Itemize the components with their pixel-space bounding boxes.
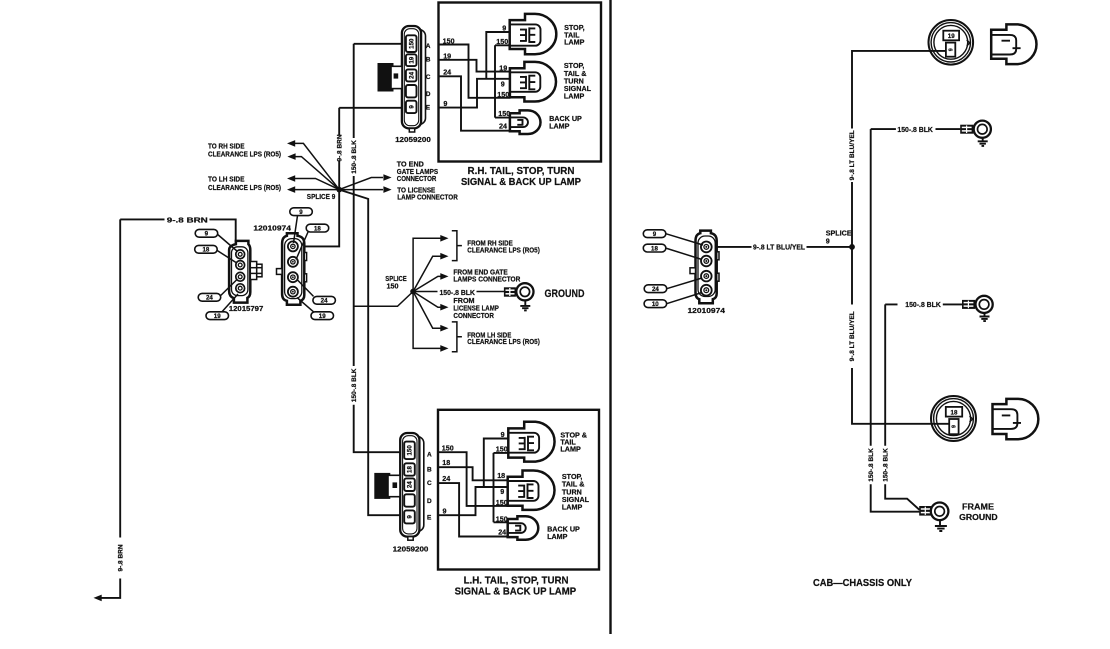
connector 12059200 (top) body xyxy=(402,26,421,128)
arrowhead to license xyxy=(383,186,391,193)
svg-text:24: 24 xyxy=(206,295,213,302)
back-up lamp filament xyxy=(517,119,522,126)
callout oval 9 (12015797) xyxy=(195,229,237,251)
svg-text:19: 19 xyxy=(319,313,326,320)
svg-text:CONNECTOR: CONNECTOR xyxy=(397,174,437,183)
connector 12059200 (bottom) pin cavity E "9" xyxy=(404,510,415,523)
svg-text:C: C xyxy=(426,74,431,81)
wire splice 150 to LH clearance bracket arrow 2 xyxy=(413,292,441,349)
bracket FROM LH SIDE xyxy=(452,322,462,352)
stop/tail lamp inner socket xyxy=(510,24,540,45)
wire 150-.8 BLK from pin A to splice 150 (exits connector left) xyxy=(354,43,402,45)
stop/tail/turn (L.H.) inner socket xyxy=(508,481,538,501)
svg-text:9: 9 xyxy=(500,487,504,496)
svg-text:12059200: 12059200 xyxy=(395,135,431,144)
connector 12059200 (bottom) bottom nub xyxy=(408,537,413,541)
svg-text:A: A xyxy=(426,43,431,50)
arrowhead to end gate xyxy=(383,174,391,181)
wire circuit 9 riser to tail lamp (L.H.) xyxy=(484,439,509,488)
lamp: stop/tail/turn lamp (L.H.) bulb outline xyxy=(508,471,555,510)
svg-text:150: 150 xyxy=(442,443,454,452)
wire splice 150 to LH clearance bracket arrow 1 xyxy=(413,292,441,329)
svg-text:10: 10 xyxy=(652,301,659,308)
svg-text:18: 18 xyxy=(407,466,414,473)
connector 12059200 (top) pin cavity C "24" xyxy=(406,69,417,81)
svg-text:12059200: 12059200 xyxy=(393,545,429,554)
connector 12015797 pin 9 xyxy=(236,250,245,259)
svg-text:9: 9 xyxy=(443,506,447,515)
wire splice 150 to ground lug xyxy=(413,291,505,293)
wire circuit 18 (pin B to turn filament) xyxy=(438,467,508,480)
wire circuit 24 (pin C to back-up lamp) xyxy=(438,483,508,536)
splice 9 (right) junction dot xyxy=(849,244,855,250)
callout oval 9 (12010974 right) xyxy=(643,230,703,245)
svg-text:18: 18 xyxy=(314,225,321,232)
svg-text:SPLICE 9: SPLICE 9 xyxy=(307,192,336,201)
wire into socket (upper right) overlay xyxy=(929,50,946,52)
svg-text:150: 150 xyxy=(497,90,509,99)
svg-text:19: 19 xyxy=(499,63,507,72)
divider line between left and right diagrams xyxy=(609,0,611,634)
svg-text:12015797: 12015797 xyxy=(229,304,263,313)
svg-text:D: D xyxy=(426,91,431,98)
connector 12059200 (top) pin cavity E "9" xyxy=(406,101,417,113)
svg-text:9-.8 BRN: 9-.8 BRN xyxy=(336,134,343,161)
wire 9 from splice 9 down to bottom connector row E xyxy=(339,190,400,516)
svg-text:150: 150 xyxy=(496,514,508,523)
stop/tail lamp filaments xyxy=(520,27,535,43)
connector 12010974 (right) pin 9 xyxy=(701,242,712,253)
wire splice 150 to license arrow xyxy=(413,292,441,308)
svg-text:C: C xyxy=(427,480,432,487)
svg-text:150-.8 BLK: 150-.8 BLK xyxy=(351,368,358,402)
svg-text:9: 9 xyxy=(205,231,209,238)
svg-text:9-.8 LT BLU/YEL: 9-.8 LT BLU/YEL xyxy=(849,130,856,180)
callout oval 19 (12015797) xyxy=(206,294,238,320)
lamp: back-up lamp (R.H.) bulb outline xyxy=(510,110,541,134)
wire 9-.8 LT BLU/YEL from pin 9 to splice 9 (right) xyxy=(717,246,852,248)
connector 12015797 pin 18 xyxy=(236,261,245,270)
wire circuit 9 riser to tail lamp xyxy=(486,32,510,79)
connector 12015797 pin 24 xyxy=(236,272,245,281)
svg-text:18: 18 xyxy=(442,458,450,467)
svg-text:A: A xyxy=(427,451,432,458)
svg-text:150: 150 xyxy=(407,445,414,456)
callout oval 10 (12010974 right) xyxy=(644,293,702,309)
svg-text:CLEARANCE LPS (RO5): CLEARANCE LPS (RO5) xyxy=(208,183,282,192)
svg-text:CONNECTOR: CONNECTOR xyxy=(453,311,494,320)
arrowhead left harness continuation xyxy=(94,595,102,602)
connector 12059200 (bottom) pin cavity C "24" xyxy=(404,478,415,491)
wire 9-.8 BRN vertical from splice 9 up to connector row E xyxy=(338,108,340,190)
svg-text:9: 9 xyxy=(501,430,505,439)
svg-text:19: 19 xyxy=(948,33,955,40)
svg-text:18: 18 xyxy=(202,247,209,254)
callout oval 18 (12010974 left) xyxy=(296,224,329,259)
svg-text:150: 150 xyxy=(387,282,399,291)
connector 12010974 (left) pin 9 xyxy=(288,241,298,251)
svg-text:9: 9 xyxy=(952,425,958,428)
wire 9-.8 BRN long left vertical xyxy=(101,219,120,598)
svg-text:9: 9 xyxy=(408,105,415,109)
connector 12015797 right lock tab xyxy=(250,262,262,280)
wire 150 bus vertical (L.H. box) xyxy=(494,453,509,522)
svg-text:24: 24 xyxy=(498,528,506,537)
svg-text:9: 9 xyxy=(502,23,506,32)
svg-text:CLEARANCE LPS (RO5): CLEARANCE LPS (RO5) xyxy=(467,337,540,346)
arrowhead LH clearance upper xyxy=(287,175,295,182)
connector 12010974 (right) pin 10 xyxy=(701,285,712,296)
svg-text:SIGNAL & BACK UP LAMP: SIGNAL & BACK UP LAMP xyxy=(455,585,576,597)
ring terminal (mid right) xyxy=(962,296,993,313)
ring terminal (upper right) xyxy=(960,121,991,138)
wire 150 bus vertical (R.H. box) xyxy=(495,45,511,117)
svg-text:9: 9 xyxy=(826,237,830,246)
splice 150 junction dot xyxy=(410,289,416,295)
svg-text:150: 150 xyxy=(496,498,508,507)
wire 150-.8 BLK upper ring branch xyxy=(871,128,961,130)
frame ground ring terminal xyxy=(919,503,948,521)
stop/tail/turn inner socket xyxy=(511,72,541,92)
connector 12059200 (bottom) pin cavity D blank xyxy=(404,494,415,506)
svg-text:LAMP: LAMP xyxy=(547,532,568,541)
svg-text:9-.8 LT BLU/YEL: 9-.8 LT BLU/YEL xyxy=(753,242,806,251)
svg-text:150-.8 BLK: 150-.8 BLK xyxy=(905,300,941,309)
svg-text:D: D xyxy=(427,498,432,505)
connector 12010974 (right) body xyxy=(696,231,717,304)
svg-text:9: 9 xyxy=(501,80,505,89)
wire circuit 9 (pin E riser, L.H.) xyxy=(438,487,508,515)
connector 12059200 (top) left lock tab xyxy=(378,63,403,92)
connector 12010974 (right) side tabs xyxy=(690,252,719,281)
svg-text:18: 18 xyxy=(951,409,958,416)
wire 9-.8 BRN from pin E (exits connector left) xyxy=(339,107,402,109)
wire 150-.8 BLK vertical #1 (to frame ground) xyxy=(871,129,920,512)
lamp socket face (lower right) xyxy=(931,396,976,441)
wire splice 150 branch to 150 vertical (down-left) xyxy=(354,292,413,307)
wire circuit 24 (pin C to back-up lamp) xyxy=(439,76,511,130)
wire 150-.8 BLK vertical #2 (to frame ground) xyxy=(885,304,919,509)
svg-text:LAMP CONNECTOR: LAMP CONNECTOR xyxy=(397,193,458,202)
lamp: stop/tail/turn lamp (R.H.) bulb outline xyxy=(510,62,556,102)
connector 12015797 body xyxy=(229,241,250,303)
svg-text:9: 9 xyxy=(443,99,447,108)
wire into socket (lower right) overlay xyxy=(932,423,950,425)
lamp: stop/tail lamp (L.H.) bulb outline xyxy=(508,422,554,462)
svg-text:LAMPS CONNECTOR: LAMPS CONNECTOR xyxy=(453,274,521,283)
svg-text:CLEARANCE LPS (RO5): CLEARANCE LPS (RO5) xyxy=(208,150,282,159)
wire 150-.8 BLK vertical from connector row A down to splice 150 and bottom connector xyxy=(354,44,401,452)
ground symbol at ground lug xyxy=(520,301,530,311)
wire splice 9 to license lamp connector xyxy=(339,189,383,191)
svg-text:18: 18 xyxy=(497,471,505,480)
back-up (L.H.) inner socket xyxy=(508,523,525,533)
svg-text:19: 19 xyxy=(443,52,451,61)
callout oval 24 (12010974 right) xyxy=(644,278,702,293)
box R.H. lamp assembly xyxy=(439,3,602,162)
svg-text:12010974: 12010974 xyxy=(253,223,291,232)
svg-text:24: 24 xyxy=(442,474,450,483)
svg-text:FRAME: FRAME xyxy=(962,502,995,511)
svg-text:9-.8 BRN: 9-.8 BRN xyxy=(117,544,124,571)
ground symbol (frame ground) xyxy=(935,520,947,531)
callout oval 19 (12010974 left) xyxy=(297,298,334,321)
svg-text:E: E xyxy=(426,104,431,111)
svg-text:150: 150 xyxy=(498,109,510,118)
svg-text:LAMP: LAMP xyxy=(560,445,581,454)
svg-text:24: 24 xyxy=(321,298,328,305)
connector 12010974 (left) pin 24 xyxy=(288,272,298,282)
connector 12010974 (right) pin 18 xyxy=(701,256,712,267)
svg-text:B: B xyxy=(427,466,432,473)
wire 9-.8 BRN horizontal to connector 12015797 xyxy=(120,219,236,242)
wire 9-.8 LT BLU/YEL vertical up to socket (right) xyxy=(852,51,946,247)
connector glyph (lower right) xyxy=(932,399,1039,439)
svg-text:9-.8 BRN: 9-.8 BRN xyxy=(167,215,208,224)
svg-text:24: 24 xyxy=(408,71,415,78)
svg-text:24: 24 xyxy=(499,121,507,130)
stop/tail/turn filaments xyxy=(520,75,535,91)
arrowhead from license xyxy=(440,304,448,311)
wire splice 9 to RH side clearance (lower arrow) xyxy=(295,157,339,190)
arrowhead from RH clearance 2 xyxy=(440,253,448,260)
lamp: stop/tail lamp (R.H.) bulb outline xyxy=(510,14,557,54)
svg-text:LAMP: LAMP xyxy=(549,122,570,131)
connector 12010974 (left) side tabs xyxy=(277,253,307,282)
arrowhead from end gate xyxy=(440,273,448,280)
connector 12010974 (left) body xyxy=(282,233,304,305)
connector 12059200 (top) bottom nub xyxy=(409,128,414,132)
stop/tail/turn (L.H.) filaments xyxy=(518,483,533,499)
callout oval 9 (12010974 left) xyxy=(290,208,313,243)
wire splice 9 to RH side clearance (upper arrow) xyxy=(294,143,339,189)
wire 9-.8 LT BLU/YEL vertical down to lower socket (right) xyxy=(852,247,950,424)
svg-text:CAB—CHASSIS ONLY: CAB—CHASSIS ONLY xyxy=(813,577,912,589)
svg-text:150-.8 BLK: 150-.8 BLK xyxy=(882,448,889,482)
wire circuit 150 inside R.H. box (pin A to lamps ground bus) xyxy=(439,45,511,98)
connector 12015797 pin 19 xyxy=(236,284,245,293)
svg-text:9-.8 LT BLU/YEL: 9-.8 LT BLU/YEL xyxy=(849,311,856,361)
callout oval 18 (12015797) xyxy=(195,245,236,262)
connector 12059200 (bottom) body xyxy=(400,433,419,537)
connector 12010974 (right) pin 24 xyxy=(701,271,712,282)
arrowhead RH clearance lower xyxy=(287,153,295,160)
box L.H. lamp assembly xyxy=(438,410,599,570)
wire splice 150 to end gate arrow xyxy=(413,276,441,291)
arrowhead from LH clearance 1 xyxy=(440,325,448,332)
callout oval 18 (12010974 right) xyxy=(643,244,702,259)
svg-text:24: 24 xyxy=(407,481,414,488)
wire 9-.8 BRN branch to connector 12010974 pin 9 xyxy=(304,190,339,247)
connector 12059200 (top) pin cavity B "19" xyxy=(406,54,417,66)
svg-text:24: 24 xyxy=(652,286,659,293)
svg-text:TO LH SIDE: TO LH SIDE xyxy=(208,175,245,184)
svg-text:9: 9 xyxy=(299,209,303,216)
svg-text:LAMP: LAMP xyxy=(564,38,585,47)
stop/tail (L.H.) filaments xyxy=(519,436,534,452)
svg-text:150-.8 BLK: 150-.8 BLK xyxy=(897,125,933,134)
svg-text:LAMP: LAMP xyxy=(564,92,585,101)
svg-text:150: 150 xyxy=(496,37,508,46)
svg-text:18: 18 xyxy=(651,245,658,252)
connector 12059200 (bottom) left lock tab xyxy=(374,473,400,499)
svg-text:B: B xyxy=(426,56,431,63)
arrowhead RH clearance upper xyxy=(287,140,295,147)
ground symbol (mid ring) xyxy=(980,313,990,321)
arrowhead LH clearance lower xyxy=(287,186,295,193)
svg-text:9: 9 xyxy=(948,48,954,51)
wire circuit 9 (pin E riser) xyxy=(439,79,511,108)
connector 12059200 (bottom) shadow outline xyxy=(404,437,424,532)
wire circuit 19 (pin B to turn filament) xyxy=(439,60,511,72)
connector 12010974 (left) pin 19 xyxy=(288,287,298,297)
svg-text:150-.8 BLK: 150-.8 BLK xyxy=(351,140,358,174)
svg-text:12010974: 12010974 xyxy=(688,306,726,315)
ground lug ring terminal xyxy=(504,283,534,300)
callout oval 24 (12015797) xyxy=(198,280,237,302)
lamp socket face (upper right) xyxy=(929,20,974,65)
svg-text:19: 19 xyxy=(408,56,415,63)
wire 150-.8 BLK lower ring branch xyxy=(885,303,962,305)
svg-text:CLEARANCE LPS (RO5): CLEARANCE LPS (RO5) xyxy=(467,245,540,254)
back-up (L.H.) filament xyxy=(515,525,520,532)
wire circuit 150 inside L.H. box (pin A to lamps ground bus) xyxy=(438,452,508,506)
svg-text:GROUND: GROUND xyxy=(959,513,998,522)
lamp: back-up lamp (L.H.) bulb outline xyxy=(508,516,539,540)
wire splice 150 to RH clearance bracket arrow 2 xyxy=(413,256,441,291)
ground symbol (upper ring) xyxy=(978,138,988,146)
connector 12059200 (top) pin cavity A "150" xyxy=(406,35,417,52)
connector 12059200 (bottom) pin cavity B "18" xyxy=(404,463,415,475)
svg-text:LAMP: LAMP xyxy=(562,502,583,511)
connector glyph (upper right) xyxy=(929,24,1036,64)
svg-text:9: 9 xyxy=(653,231,657,238)
callout oval 24 (12010974 left) xyxy=(298,280,336,305)
svg-text:150: 150 xyxy=(443,36,455,45)
connector 12059200 (bottom) pin cavity A "150" xyxy=(404,442,415,460)
svg-text:19: 19 xyxy=(214,313,221,320)
splice 9 junction dot xyxy=(336,187,342,193)
svg-text:E: E xyxy=(427,515,432,522)
bracket FROM RH SIDE xyxy=(452,231,462,261)
wire splice 9 to LH side clearance (upper arrow) xyxy=(295,179,339,190)
svg-text:SIGNAL & BACK UP LAMP: SIGNAL & BACK UP LAMP xyxy=(461,176,581,188)
wire splice 9 to end gate lamps connector xyxy=(339,178,383,190)
arrowhead from LH clearance 2 xyxy=(440,345,448,352)
svg-text:150-.8 BLK: 150-.8 BLK xyxy=(868,448,875,482)
arrowhead from RH clearance 1 xyxy=(440,235,448,242)
back-up lamp inner socket xyxy=(511,117,528,127)
wire splice 150 up to RH clearance bracket arrow 1 xyxy=(413,238,441,291)
stop/tail (L.H.) inner socket xyxy=(509,433,539,453)
svg-text:150: 150 xyxy=(496,444,508,453)
svg-text:150: 150 xyxy=(408,38,415,49)
svg-text:GROUND: GROUND xyxy=(545,288,585,300)
svg-text:24: 24 xyxy=(443,67,451,76)
connector 12059200 (top) pin cavity D blank xyxy=(406,85,417,97)
connector 12059200 (top) shadow outline xyxy=(406,30,426,125)
svg-text:9: 9 xyxy=(407,515,414,519)
wire splice 9 to LH side clearance (lower arrow) xyxy=(295,189,339,191)
connector 12010974 (left) pin 18 xyxy=(288,257,298,267)
